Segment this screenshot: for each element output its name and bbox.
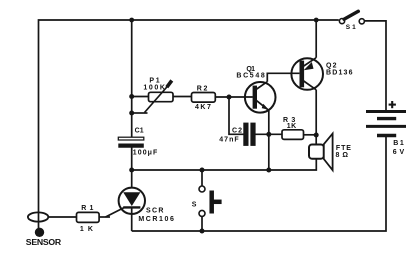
svg-text:C1: C1 [135, 128, 144, 135]
wire top rail from top-left corner to switch S1 [39, 20, 339, 228]
wire R2 to Q1 base [215, 96, 253, 98]
capacitor C1 electrolytic [118, 137, 144, 145]
svg-text:S1: S1 [346, 24, 356, 31]
node junction C2/R3/Q1-emitter [266, 132, 271, 137]
resistor R2 [192, 93, 216, 103]
node junction mid rail at Q1 emitter [266, 168, 271, 173]
node junction bottom rail at S [200, 229, 205, 234]
svg-text:BD136: BD136 [326, 70, 353, 77]
svg-text:R2: R2 [197, 85, 208, 92]
transistor Q2 BD136 [291, 58, 323, 90]
wire C1 bottom to mid rail [131, 147, 133, 170]
resistor R1 [77, 212, 100, 222]
wire S1 right terminal to right corner and down to battery plus [365, 21, 386, 110]
wire R3 right to speaker node [304, 134, 317, 136]
wire mid rail y=170 to speaker bottom [132, 159, 317, 170]
svg-text:MCR106: MCR106 [138, 216, 174, 223]
wire battery negative down and bottom rail to SCR cathode [132, 137, 386, 231]
wire P1 to R2 [173, 96, 192, 98]
wire C2 right to R3 left [255, 133, 282, 135]
capacitor C2 [246, 123, 253, 146]
svg-text:47nF: 47nF [219, 137, 239, 144]
svg-text:B1: B1 [393, 140, 404, 147]
sensor probe ellipse [28, 212, 48, 221]
speaker FTE [309, 134, 333, 171]
svg-text:Q2: Q2 [326, 63, 337, 70]
svg-text:6V: 6V [393, 149, 405, 156]
wire Q1 emitter down to y170 rail [268, 111, 270, 170]
svg-text:1K: 1K [80, 226, 93, 233]
node junction R3/Q2-collector/speaker [314, 133, 319, 138]
svg-text:SENSOR: SENSOR [26, 237, 62, 247]
node junction mid rail at SCR [129, 168, 134, 173]
wire P1 wiper connection [132, 112, 148, 114]
potentiometer P1 body [145, 81, 174, 113]
svg-text:1K: 1K [287, 123, 297, 130]
node junction R2/Q1-base/C2 [227, 95, 232, 100]
node junction P1 wiper [129, 111, 134, 116]
resistor R3 [282, 130, 304, 140]
node junction top rail at Q2 emitter branch [314, 18, 319, 23]
SCR MCR106 [106, 170, 146, 231]
wire node V+ branch down to C1 top [131, 20, 133, 137]
node junction P1 left [129, 94, 134, 99]
wire C2 left branch [229, 97, 244, 134]
transistor Q1 BC548 [245, 82, 276, 113]
node junction top rail at C1 branch [129, 18, 134, 23]
svg-text:P1: P1 [149, 77, 159, 84]
svg-text:BC548: BC548 [236, 72, 264, 79]
svg-text:R1: R1 [81, 205, 93, 212]
svg-text:8Ω: 8Ω [336, 152, 349, 159]
svg-text:C2: C2 [232, 128, 242, 135]
label + [389, 101, 396, 108]
wire P1 left terminal [132, 96, 149, 98]
svg-text:4K7: 4K7 [195, 104, 211, 111]
node junction mid rail at S branch [200, 168, 205, 173]
sensor probe tip dot [35, 228, 44, 237]
wire Q2 collector down to speaker [315, 90, 317, 145]
wire R1 to SCR gate [99, 216, 110, 218]
wire Q1 collector to Q2 base [267, 73, 299, 81]
svg-text:SCR: SCR [146, 207, 163, 214]
wire Q2 emitter up to top rail [315, 20, 317, 58]
switch S1 [339, 11, 364, 24]
battery B1 [366, 112, 406, 136]
pushbutton S [199, 170, 222, 231]
svg-text:S: S [192, 201, 197, 208]
svg-text:100μF: 100μF [133, 150, 158, 157]
wire sensor to R1 [49, 216, 77, 218]
svg-text:100K: 100K [143, 85, 165, 92]
svg-text:FTE: FTE [336, 145, 351, 152]
